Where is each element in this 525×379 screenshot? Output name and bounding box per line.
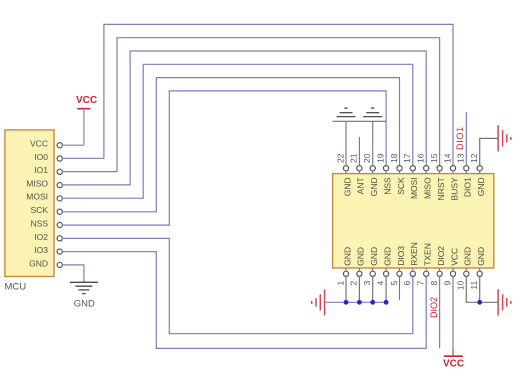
svg-text:GND: GND <box>74 298 95 309</box>
svg-text:VCC: VCC <box>76 95 97 106</box>
pin21 ANT stub <box>358 137 360 166</box>
svg-text:13: 13 <box>456 153 466 163</box>
svg-text:GND: GND <box>356 247 366 266</box>
ground symbol bottom left (red) <box>312 289 325 315</box>
svg-text:GND: GND <box>382 247 392 266</box>
svg-text:GND: GND <box>369 247 379 266</box>
svg-text:DIO1: DIO1 <box>463 177 473 197</box>
svg-text:DIO1: DIO1 <box>455 126 465 150</box>
svg-text:IO1: IO1 <box>34 165 48 175</box>
ground symbol above pin20 <box>363 108 382 117</box>
wire pin12 GND to right ground <box>480 138 498 166</box>
svg-text:17: 17 <box>402 153 412 163</box>
svg-text:20: 20 <box>362 153 372 163</box>
svg-text:5: 5 <box>389 281 399 286</box>
svg-text:GND: GND <box>29 258 48 268</box>
module top pin circles <box>343 166 482 171</box>
svg-text:21: 21 <box>349 153 359 163</box>
wires pins1-4 to bottom bus <box>346 276 386 302</box>
MCU pin labels <box>26 139 48 269</box>
svg-text:GND: GND <box>342 177 352 196</box>
svg-text:16: 16 <box>416 153 426 163</box>
wire DIO1 net stub <box>465 112 467 166</box>
svg-text:7: 7 <box>416 281 426 286</box>
svg-text:NRST: NRST <box>436 177 446 200</box>
module U2 body <box>333 174 494 268</box>
svg-text:GND: GND <box>476 247 486 266</box>
svg-text:GND: GND <box>463 247 473 266</box>
svg-text:GND: GND <box>476 177 486 196</box>
module top pin leads <box>346 171 480 174</box>
power VCC symbol (bottom) <box>443 349 464 370</box>
svg-text:18: 18 <box>389 153 399 163</box>
wire VCC stem <box>83 109 85 146</box>
wire pin11 GND <box>480 276 498 302</box>
svg-text:15: 15 <box>429 153 439 163</box>
module bottom pin leads <box>346 268 480 272</box>
svg-text:IO2: IO2 <box>34 232 48 242</box>
wire top ground bus <box>333 120 387 122</box>
svg-text:ANT: ANT <box>356 177 366 194</box>
svg-text:6: 6 <box>402 281 412 286</box>
svg-text:MOSI: MOSI <box>409 177 419 199</box>
svg-text:NSS: NSS <box>382 177 392 195</box>
junction dot pins10-11 <box>477 300 482 305</box>
wire pin9 VCC <box>452 276 454 349</box>
module bottom pin names <box>342 242 486 266</box>
svg-text:TXEN: TXEN <box>423 243 433 266</box>
ground symbol under MCU <box>70 282 98 293</box>
svg-text:SCK: SCK <box>31 205 49 215</box>
svg-text:3: 3 <box>362 281 372 286</box>
wire SCK <box>62 78 400 212</box>
svg-text:VCC: VCC <box>443 359 464 370</box>
svg-text:GND: GND <box>369 177 379 196</box>
svg-text:MOSI: MOSI <box>26 192 48 202</box>
svg-text:9: 9 <box>442 281 452 286</box>
power VCC symbol (top left) <box>76 95 97 109</box>
wire pin10 GND <box>466 276 479 302</box>
wire MCU VCC pin <box>62 144 84 146</box>
ground symbol right top (red) <box>498 125 511 151</box>
svg-text:MISO: MISO <box>423 177 433 199</box>
svg-text:BUSY: BUSY <box>449 177 459 200</box>
wire IO3 to TXEN <box>62 252 426 349</box>
wire pin20 to bus <box>372 121 374 166</box>
svg-text:RXEN: RXEN <box>409 242 419 266</box>
wire IO0 to BUSY <box>62 24 453 165</box>
svg-text:DIO2: DIO2 <box>429 297 439 318</box>
svg-text:MISO: MISO <box>26 178 48 188</box>
svg-text:IO3: IO3 <box>34 245 48 255</box>
module bottom pin numbers 1-11 <box>335 281 479 291</box>
svg-text:4: 4 <box>375 281 385 286</box>
svg-text:14: 14 <box>442 153 452 163</box>
svg-text:GND: GND <box>342 247 352 266</box>
svg-text:VCC: VCC <box>30 139 48 149</box>
svg-text:DIO3: DIO3 <box>396 246 406 266</box>
svg-text:IO0: IO0 <box>34 152 48 162</box>
svg-text:8: 8 <box>429 281 439 286</box>
MCU pin circles <box>57 143 62 268</box>
wire MISO <box>62 51 426 185</box>
svg-text:SCK: SCK <box>396 177 406 195</box>
svg-text:10: 10 <box>456 281 466 291</box>
svg-text:22: 22 <box>335 153 345 163</box>
junction dots on bottom bus <box>344 300 389 305</box>
wire MOSI <box>62 64 413 198</box>
svg-text:12: 12 <box>469 153 479 163</box>
ground symbol above pin22 <box>337 108 356 117</box>
svg-text:MCU: MCU <box>5 282 27 293</box>
wire pin22 to bus <box>345 121 347 166</box>
wire NSS <box>62 91 386 225</box>
module bottom pin circles <box>343 271 482 276</box>
module top pin numbers 22-12 <box>335 153 479 163</box>
svg-text:VCC: VCC <box>449 248 459 266</box>
wire IO1 to NRST <box>62 38 440 172</box>
svg-text:11: 11 <box>469 281 479 290</box>
svg-text:NSS: NSS <box>31 219 49 229</box>
module top pin names <box>342 177 486 201</box>
svg-text:DIO2: DIO2 <box>436 246 446 266</box>
svg-text:19: 19 <box>375 153 385 163</box>
svg-text:1: 1 <box>335 281 345 286</box>
pin5 DIO3 stub <box>399 276 401 300</box>
wire IO2 to RXEN <box>62 238 413 333</box>
wire MCU GND pin <box>62 265 84 282</box>
wire pin8 DIO2 net stub <box>439 276 441 348</box>
MCU U1 body <box>5 130 54 277</box>
svg-text:2: 2 <box>349 281 359 286</box>
wire bottom ground bus <box>326 301 387 303</box>
ground symbol bottom right (red) <box>498 289 511 315</box>
